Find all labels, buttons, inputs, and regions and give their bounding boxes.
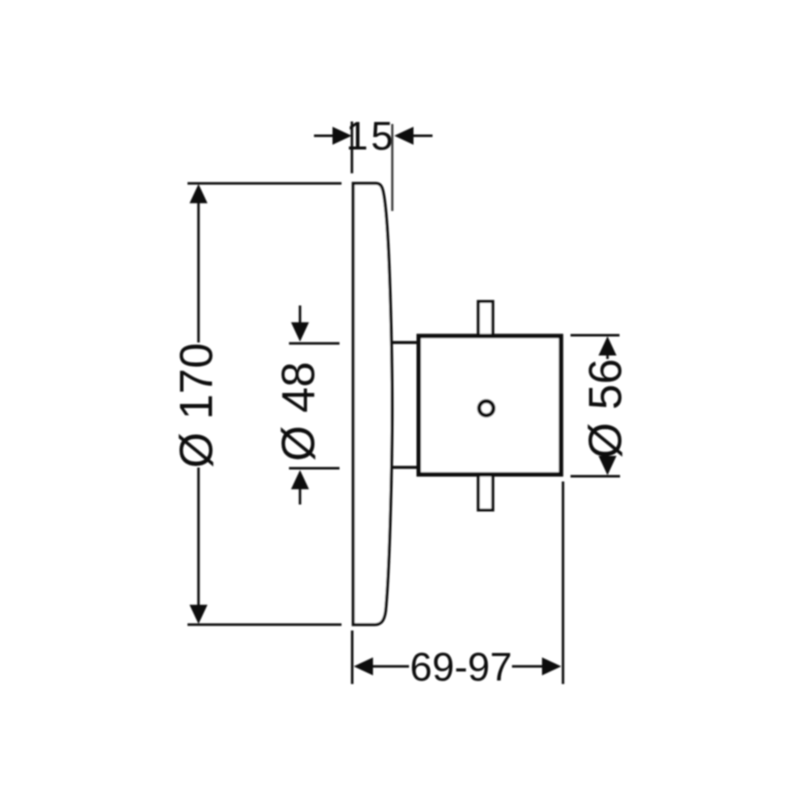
dim 48: top extension line (289, 342, 340, 345)
center screw circle (479, 401, 493, 415)
dim 69-97: left dim line segment (369, 665, 409, 668)
top tab (478, 302, 493, 336)
svg-text:Ø 170: Ø 170 (170, 343, 222, 468)
dim 69-97: left extension line (351, 631, 354, 685)
dim 15: left approach line (314, 135, 336, 138)
dim 56: bottom arrow (599, 456, 617, 475)
bottom tab (478, 475, 493, 511)
svg-text:Ø 56: Ø 56 (579, 359, 631, 459)
dim 48: lower stub (299, 485, 302, 505)
dim 170: bottom arrow (190, 605, 208, 624)
dim 69-97: left arrow (354, 657, 373, 675)
svg-text:1: 1 (346, 115, 368, 159)
dim 170: bottom extension line (188, 623, 342, 626)
dim 69-97: right arrow (542, 657, 561, 675)
dim 170: lower dim line segment (197, 468, 200, 612)
dim 69-97: right dim line segment (512, 665, 546, 668)
svg-text:Ø 48: Ø 48 (272, 362, 324, 462)
dim 15: left extension line (351, 122, 354, 174)
dim 48: upper arrow (291, 322, 309, 341)
svg-text:69-97: 69-97 (410, 646, 512, 690)
handle body square (419, 336, 561, 474)
dim 56: lower stub (606, 453, 609, 462)
dim 170: top extension line (188, 182, 342, 185)
dim 15: right arrow (394, 127, 413, 145)
dim 15: right approach line (410, 135, 433, 138)
dim 48: lower arrow (291, 470, 309, 489)
dim 15: right extension line (391, 124, 393, 211)
dim 170: upper dim line segment (197, 198, 200, 343)
dim 56: top arrow (599, 336, 617, 355)
valve sleeve bottom line (391, 466, 418, 469)
svg-text:5: 5 (371, 115, 393, 159)
escutcheon plate side profile (353, 183, 392, 624)
dim 15: left arrow (333, 127, 352, 145)
valve sleeve top line (391, 341, 418, 344)
dim 48: upper stub (299, 306, 302, 327)
dim 48: bottom extension line (289, 467, 340, 470)
dim 56: bottom extension line (571, 475, 621, 478)
dim 56: top extension line (571, 334, 620, 337)
dim 69-97: right extension line (562, 482, 565, 685)
dim 56: upper stub (606, 350, 609, 359)
dim 170: top arrow (190, 184, 208, 203)
